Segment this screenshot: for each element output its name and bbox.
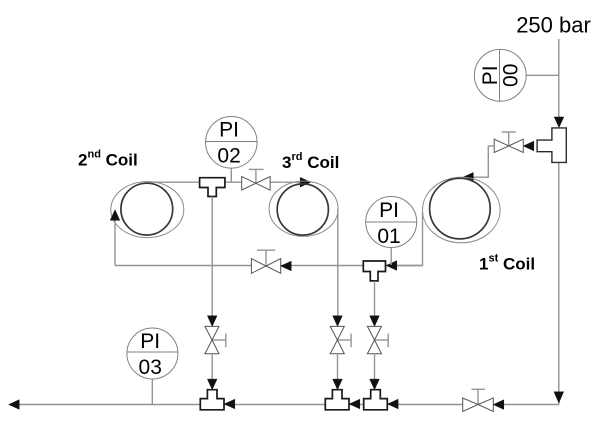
svg-text:PI: PI: [140, 330, 160, 353]
svg-text:01: 01: [377, 225, 400, 248]
wire: valve V1 to 1st coil entry: [466, 146, 494, 177]
svg-text:PI: PI: [219, 119, 239, 142]
2nd coil spiral: [111, 182, 184, 238]
wire: T2 stub down to valve V5: [211, 197, 213, 326]
svg-text:3rd Coil: 3rd Coil: [282, 151, 339, 172]
instrument PI 00 connector wire: [526, 74, 559, 76]
arrow into tee T3 (left): [386, 261, 397, 271]
wire: top line from 2nd coil to valve V2: [145, 181, 242, 183]
valve V3 (horizontal on middle line, with handle): [251, 250, 280, 273]
arrow down into valve V6: [333, 316, 343, 327]
wire: supply line down from 250 bar to tee T1: [558, 39, 560, 126]
svg-text:00: 00: [499, 64, 522, 87]
arrow into tee T4 (left): [224, 399, 235, 409]
wire: bottom header line right part: [493, 404, 559, 406]
svg-text:PI: PI: [379, 199, 399, 222]
arrow on 1st coil top (left): [463, 173, 474, 183]
instrument PI 03 stem: [151, 379, 153, 405]
valve V2 (horizontal on top line, with handle): [242, 169, 270, 190]
svg-text:02: 02: [217, 145, 240, 168]
wire: supply line below tee T1 down right side: [558, 162, 560, 404]
svg-text:03: 03: [139, 356, 162, 379]
tee T1 (pointing left): [537, 128, 566, 162]
1st coil spiral: [423, 177, 501, 243]
arrow into tee T1 (down): [554, 117, 564, 128]
instrument PI 02 stem: [230, 168, 232, 182]
arrow into tee T4 (down): [207, 379, 217, 390]
wire: below valve V7: [374, 354, 376, 389]
label 250 bar: [516, 13, 591, 38]
label 2nd Coil: [78, 149, 138, 170]
wire: 3rd coil exit down to valve V6: [337, 209, 339, 326]
label 3rd Coil: [282, 151, 339, 172]
tee T4 (pointing up): [200, 390, 224, 410]
wire: bottom header line left part: [16, 404, 463, 406]
tee T3 (pointing down, under PI 01): [363, 261, 385, 281]
valve V1 (horizontal, with handle): [494, 132, 523, 153]
label 1st Coil: [479, 253, 535, 274]
wire: entry up into 2nd coil: [114, 214, 116, 266]
valve V5 (vertical, handle right): [205, 326, 226, 353]
svg-text:250 bar: 250 bar: [516, 13, 591, 38]
wire: valve V2 to 3rd coil: [270, 181, 301, 183]
arrow down at bottom right corner: [554, 392, 564, 403]
valve V6 (vertical, handle right): [330, 326, 351, 353]
arrow into tee T5 (down): [333, 379, 343, 390]
arrow into valve V4 (left): [493, 400, 504, 410]
wire: below valve V6: [337, 354, 339, 389]
wire: T3 stub down to valve V7: [374, 281, 376, 326]
arrow up into 2nd coil: [110, 210, 120, 221]
arrow into valve V1 (left): [523, 141, 534, 151]
arrow into tee T5 (left): [349, 399, 360, 409]
instrument PI 02: [206, 117, 258, 169]
instrument PI 01 stem: [390, 247, 392, 265]
wire: 1st coil exit down to middle line: [396, 212, 423, 266]
tee T6 (pointing up): [364, 390, 388, 410]
wire: below valve V5: [211, 354, 213, 389]
wire: middle line left segment: [115, 265, 252, 267]
3rd coil spiral: [269, 181, 338, 236]
valve V7 (vertical, handle right): [367, 326, 388, 353]
instrument PI 01: [366, 197, 417, 248]
svg-text:1st Coil: 1st Coil: [479, 253, 535, 274]
arrow at far left outlet: [9, 400, 20, 410]
instrument PI 03: [127, 328, 178, 379]
tee T5 (pointing up): [325, 390, 349, 410]
arrow into 3rd coil (right): [300, 177, 311, 187]
arrow down into valve V5: [207, 316, 217, 327]
arrow into valve V3 (left): [281, 261, 292, 271]
instrument PI 00 (rotated bubble): [474, 49, 526, 101]
arrow into tee T6 (left): [388, 399, 399, 409]
svg-text:2nd Coil: 2nd Coil: [78, 149, 138, 170]
wire: middle line right segment: [281, 265, 423, 267]
tee T2 (pointing down): [200, 178, 225, 197]
valve V4 (horizontal on bottom line, with handle): [463, 389, 494, 411]
arrow into tee T6 (down): [370, 379, 380, 390]
arrow down into valve V7: [370, 316, 380, 327]
